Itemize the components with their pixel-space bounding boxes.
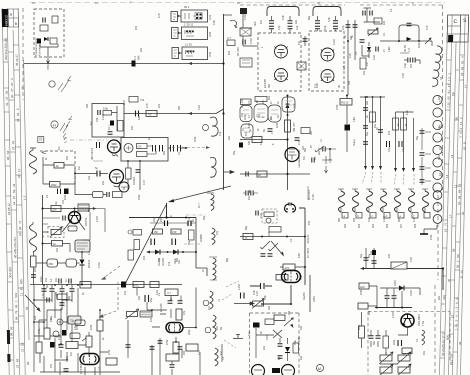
label C9 bbox=[133, 55, 141, 60]
svg-text:22n: 22n bbox=[34, 267, 37, 272]
svg-text:25 · 55 · 91 · 4: 25 · 55 · 91 · 4 bbox=[460, 56, 464, 76]
node pickup hook bbox=[230, 20, 237, 26]
diode D80 bbox=[286, 104, 290, 108]
wire arrow down bbox=[47, 57, 50, 64]
svg-text:0.1µ: 0.1µ bbox=[248, 331, 251, 336]
svg-text:470nF: 470nF bbox=[46, 62, 50, 70]
capacitor C90 bbox=[363, 108, 368, 110]
resistor R112 vertical bbox=[134, 240, 140, 250]
wire bbox=[348, 20, 355, 95]
svg-text:8.2: 8.2 bbox=[58, 146, 61, 150]
resistor R160 bbox=[274, 315, 285, 321]
svg-text:U42: U42 bbox=[208, 31, 212, 37]
wire bbox=[43, 157, 75, 195]
capacitor C64 bars bbox=[97, 171, 100, 177]
svg-text:47p: 47p bbox=[88, 175, 91, 180]
wire bbox=[168, 147, 186, 149]
capacitor C131 block bbox=[372, 250, 376, 255]
label lang schaltersmudge bbox=[298, 146, 305, 168]
resistor R110 bbox=[153, 229, 163, 234]
svg-text:330: 330 bbox=[288, 310, 291, 315]
node box b bbox=[358, 303, 368, 309]
node box2 bbox=[113, 192, 123, 198]
capacitor C141 bbox=[60, 289, 65, 291]
node ticks col bbox=[440, 55, 464, 358]
svg-text:96 · 84: 96 · 84 bbox=[6, 150, 10, 160]
pot P150 bbox=[126, 309, 139, 319]
node circled 1 bbox=[203, 300, 209, 306]
transistor T1 bbox=[69, 212, 81, 224]
svg-text:ECC85: ECC85 bbox=[263, 79, 267, 88]
svg-text:0.47: 0.47 bbox=[298, 140, 301, 145]
svg-text:0.47: 0.47 bbox=[413, 217, 416, 222]
wire arrow bbox=[179, 52, 183, 54]
label bbox=[150, 292, 161, 302]
svg-text:M: M bbox=[318, 367, 321, 371]
svg-text:15n: 15n bbox=[34, 315, 37, 320]
resistor R21 bbox=[227, 40, 235, 46]
svg-text:50µ: 50µ bbox=[360, 253, 363, 258]
svg-text:AM 477: AM 477 bbox=[292, 122, 296, 132]
svg-text:L 8: L 8 bbox=[407, 48, 411, 52]
label 6BM8 bbox=[307, 189, 315, 200]
svg-text:68k: 68k bbox=[137, 55, 141, 60]
wire bbox=[2, 8, 30, 375]
capacitor C113 pair bbox=[172, 239, 176, 246]
label FM wave marks bbox=[60, 116, 72, 140]
capacitor C53 bbox=[360, 40, 365, 42]
svg-text:5.6k: 5.6k bbox=[103, 107, 109, 111]
wire bbox=[240, 14, 252, 28]
resistor R82 bbox=[252, 137, 262, 143]
resistor R171 vertical bbox=[383, 336, 389, 348]
node dashed sub box bbox=[262, 209, 277, 223]
resistor R61 bbox=[118, 121, 124, 132]
node dashed pot frame bbox=[48, 227, 64, 238]
svg-text:3.3k: 3.3k bbox=[213, 20, 216, 25]
svg-text:150: 150 bbox=[183, 350, 186, 355]
resistor R114 vertical bbox=[189, 230, 195, 240]
svg-text:150: 150 bbox=[172, 230, 177, 234]
capacitor C62 bbox=[108, 132, 113, 134]
resistor R73 vertical bbox=[126, 168, 132, 179]
capacitor C156 bbox=[170, 365, 175, 367]
svg-text:5.6k: 5.6k bbox=[264, 295, 267, 300]
label ECC bbox=[79, 363, 83, 374]
node box 4.7 bbox=[165, 289, 178, 296]
resistor R91 bbox=[393, 118, 399, 130]
svg-text:15n: 15n bbox=[423, 350, 426, 355]
capacitor C93 bbox=[378, 130, 383, 132]
svg-text:4.7k: 4.7k bbox=[343, 65, 346, 70]
label cluster texts bbox=[244, 113, 273, 136]
label wave marks bbox=[58, 76, 71, 92]
capacitor C154 bbox=[150, 347, 155, 349]
wire dash-dot line bbox=[70, 139, 107, 141]
node mid connector bbox=[297, 62, 306, 70]
svg-text:47: 47 bbox=[21, 86, 25, 90]
pot P173 bbox=[397, 364, 411, 375]
diode D101 bbox=[44, 37, 48, 41]
wire bbox=[439, 15, 468, 375]
wire bbox=[43, 183, 75, 185]
node speaker coil 2 bbox=[213, 315, 216, 339]
svg-text:560: 560 bbox=[398, 217, 401, 222]
svg-text:22n: 22n bbox=[295, 19, 298, 24]
node coil antenna 2 bbox=[30, 224, 37, 252]
svg-text:25µ: 25µ bbox=[241, 103, 244, 108]
node contact block K1 bbox=[181, 10, 208, 22]
wire bbox=[75, 173, 108, 175]
svg-text:6.3A: 6.3A bbox=[311, 194, 315, 200]
svg-text:AT 240: AT 240 bbox=[236, 47, 240, 56]
svg-text:330: 330 bbox=[366, 100, 369, 105]
svg-text:0.1: 0.1 bbox=[46, 194, 49, 198]
capacitor C158 bbox=[126, 345, 131, 347]
capacitor C66 block bbox=[64, 189, 69, 195]
capacitor C146 bbox=[42, 289, 47, 291]
wire bbox=[81, 265, 83, 285]
svg-text:2.2M: 2.2M bbox=[383, 216, 386, 222]
svg-text:64 · 87 · 56 · 44: 64 · 87 · 56 · 44 bbox=[12, 183, 16, 205]
wire inside bbox=[256, 328, 288, 361]
node junction bbox=[347, 40, 349, 42]
node tube box ECC85 b bbox=[309, 31, 344, 91]
capacitor C123 bbox=[268, 254, 273, 256]
node switch S2a bbox=[172, 28, 179, 39]
svg-text:68p: 68p bbox=[68, 295, 71, 300]
label Ua bbox=[302, 292, 316, 302]
wire dash mid bbox=[186, 214, 206, 216]
svg-text:4.7: 4.7 bbox=[65, 278, 68, 282]
label 240 bbox=[236, 21, 257, 56]
svg-text:25µ: 25µ bbox=[233, 150, 236, 155]
node box right bbox=[186, 344, 198, 351]
wire y97 top bbox=[360, 96, 385, 98]
node module frame bbox=[34, 9, 64, 57]
svg-text:505-: 505- bbox=[446, 334, 450, 340]
svg-text:25µ: 25µ bbox=[368, 310, 371, 315]
resistor R72 bbox=[137, 152, 148, 157]
capacitor C163 bbox=[278, 344, 283, 346]
node envelope outline d bbox=[241, 124, 253, 138]
svg-text:50µ: 50µ bbox=[366, 131, 369, 136]
node inner marks envelopes bbox=[243, 101, 292, 132]
capacitor C147 bbox=[47, 298, 49, 303]
node gray module box bbox=[75, 240, 90, 252]
resistor R100 bbox=[51, 206, 61, 212]
svg-text:15n: 15n bbox=[102, 180, 105, 185]
label AC151 bbox=[84, 217, 88, 226]
tube V12 arc bbox=[282, 365, 295, 375]
svg-text:220p: 220p bbox=[188, 329, 191, 335]
label under coil row bbox=[344, 223, 417, 228]
wire right leg bbox=[196, 218, 207, 277]
svg-text:OA150: OA150 bbox=[161, 257, 165, 266]
capacitor C155 bbox=[178, 347, 183, 349]
capacitor C145 bbox=[64, 369, 69, 371]
wire right dashed border bbox=[435, 5, 443, 375]
node circled H bbox=[51, 121, 58, 128]
svg-text:TR2: TR2 bbox=[266, 335, 269, 340]
wire horizontals bbox=[34, 300, 120, 372]
resistor R140 vertical bbox=[44, 328, 50, 339]
capacitor C60 bbox=[98, 110, 100, 115]
diode D52 bbox=[407, 37, 412, 41]
svg-text:14: 14 bbox=[445, 174, 449, 178]
wire bottom stubs bbox=[40, 353, 95, 375]
capacitor C95 pair bbox=[399, 141, 402, 147]
wire heater down bbox=[299, 208, 305, 285]
svg-text:2.2M: 2.2M bbox=[98, 262, 101, 268]
capacitor C152 bbox=[168, 301, 173, 303]
node ticks col bbox=[3, 40, 25, 360]
coil L9 lower part bbox=[433, 95, 442, 192]
node tube box ECC85 bbox=[258, 33, 301, 91]
diode D51 bbox=[367, 47, 371, 51]
resistor R111 bbox=[171, 229, 181, 234]
node junctions bbox=[287, 114, 289, 116]
wire arrowhead bbox=[290, 324, 294, 328]
label 4.7n bbox=[160, 215, 173, 222]
resistor R81 vertical bbox=[285, 120, 291, 132]
node dashed vertical right bbox=[117, 282, 119, 310]
capacitor C112 pair bbox=[151, 239, 155, 246]
svg-text:100k: 100k bbox=[276, 122, 279, 128]
svg-text:4.7k: 4.7k bbox=[158, 13, 161, 18]
wire dash-dot bbox=[184, 243, 201, 245]
node box 220 bbox=[359, 283, 369, 289]
svg-text:47k: 47k bbox=[218, 131, 222, 136]
wire arrow bbox=[360, 267, 364, 270]
node left mini boxes bbox=[133, 230, 142, 236]
svg-text:CA: CA bbox=[138, 145, 142, 149]
capacitor C35 bbox=[243, 40, 245, 45]
svg-text:ECL86: ECL86 bbox=[159, 303, 163, 312]
svg-text:10.7: 10.7 bbox=[198, 203, 201, 208]
svg-text:22n: 22n bbox=[438, 295, 441, 300]
label Frequenzgang bbox=[34, 38, 50, 70]
svg-text:68p: 68p bbox=[308, 15, 311, 20]
node dots bbox=[365, 96, 367, 98]
capacitor C83 bbox=[295, 138, 300, 140]
resistor R122 bbox=[283, 264, 295, 270]
svg-text:25µ: 25µ bbox=[203, 215, 206, 220]
capacitor C94 pair bbox=[387, 141, 390, 147]
svg-text:330: 330 bbox=[310, 130, 313, 135]
diode D110 bbox=[155, 250, 160, 255]
capacitor C96 column bbox=[420, 131, 425, 133]
pot P1 bbox=[50, 227, 62, 237]
wire arrow right bbox=[93, 207, 96, 210]
svg-text:Oh: Oh bbox=[451, 92, 455, 96]
capacitor C110 bbox=[165, 221, 168, 227]
svg-text:2.2M: 2.2M bbox=[96, 216, 99, 222]
wire verticals bbox=[366, 97, 414, 170]
pot P170 bbox=[379, 352, 393, 364]
svg-text:160: 160 bbox=[160, 217, 163, 222]
svg-text:30k: 30k bbox=[253, 21, 257, 26]
capacitor C130 bbox=[364, 258, 369, 260]
svg-text:3.3k: 3.3k bbox=[282, 15, 285, 20]
wire bbox=[362, 42, 369, 58]
node dashed psu box bbox=[368, 312, 450, 375]
svg-text:15 · 77: 15 · 77 bbox=[444, 222, 448, 232]
pot P51 bbox=[368, 28, 378, 36]
wire vert right bbox=[309, 275, 311, 312]
capacitor C85 bbox=[312, 158, 314, 163]
node mid box bbox=[269, 227, 281, 233]
svg-text:470: 470 bbox=[285, 266, 290, 270]
svg-text:C100: C100 bbox=[410, 289, 413, 296]
capacitor C170 bbox=[385, 296, 390, 298]
node TR2 cross bbox=[273, 330, 282, 338]
wire between boxes bbox=[304, 36, 306, 46]
svg-text:Ua250: Ua250 bbox=[302, 292, 306, 300]
capacitor C55 bbox=[407, 23, 412, 25]
svg-text:47p: 47p bbox=[216, 230, 219, 235]
label UKW column bbox=[300, 234, 310, 280]
wire stubs caps bbox=[272, 16, 336, 33]
svg-text:31 · 47 · 93: 31 · 47 · 93 bbox=[5, 90, 9, 106]
resistor R101 bbox=[40, 25, 48, 31]
capacitor C100 bbox=[31, 275, 36, 277]
svg-text:68p: 68p bbox=[226, 257, 229, 262]
node switch cluster right of tube bbox=[315, 146, 332, 164]
label ECL86 bbox=[159, 303, 163, 312]
wire main vertical bus x223 bbox=[223, 14, 225, 190]
resistor R151 vertical bbox=[176, 309, 182, 320]
tick C bbox=[325, 166, 328, 173]
svg-text:330: 330 bbox=[350, 35, 353, 40]
resistor R101b bbox=[52, 241, 63, 247]
svg-text:64 95 12: 64 95 12 bbox=[7, 203, 11, 215]
resistor R142 vertical bbox=[86, 336, 92, 347]
node round box 70 bbox=[70, 333, 80, 339]
resistor R70 bbox=[146, 111, 157, 117]
svg-text:17: 17 bbox=[449, 214, 453, 218]
svg-text:14: 14 bbox=[450, 154, 454, 158]
wire IF line y113 bbox=[124, 109, 224, 114]
svg-text:6.8n: 6.8n bbox=[298, 253, 301, 258]
svg-text:54 · 96 · 71: 54 · 96 · 71 bbox=[18, 220, 22, 236]
node IF coil 3 bbox=[213, 258, 216, 280]
svg-text:4.7k: 4.7k bbox=[146, 103, 149, 108]
svg-text:10n: 10n bbox=[45, 277, 48, 282]
svg-text:15n: 15n bbox=[56, 247, 59, 252]
svg-text:NTC: NTC bbox=[134, 283, 140, 287]
capacitor C102 bbox=[37, 39, 41, 44]
capacitor C173 bbox=[376, 336, 381, 338]
node small round box ml bbox=[68, 226, 77, 231]
label supply bbox=[366, 115, 408, 152]
wire dashed slants bbox=[362, 172, 414, 185]
resistor R102 bbox=[52, 16, 58, 23]
capacitor C67 bbox=[107, 192, 109, 197]
svg-text:403: 403 bbox=[358, 223, 361, 228]
svg-text:ZF: ZF bbox=[202, 268, 205, 272]
svg-text:C4: C4 bbox=[439, 76, 443, 80]
node osc coil pair bbox=[203, 125, 209, 131]
capacitor C161 pair bbox=[241, 293, 245, 299]
resistor R80 bbox=[255, 97, 267, 102]
resistor R103 bbox=[50, 38, 57, 44]
diode D1 down bbox=[80, 260, 85, 266]
svg-text:406: 406 bbox=[386, 223, 389, 228]
capacitor C151 pair bbox=[145, 295, 149, 302]
svg-text:BA114: BA114 bbox=[87, 259, 91, 268]
wire bbox=[404, 60, 420, 64]
label coil letters bbox=[344, 214, 415, 218]
node IF coil 1 bbox=[211, 194, 214, 211]
svg-text:470k: 470k bbox=[360, 289, 363, 295]
wire AM bus y63 bbox=[24, 63, 224, 65]
svg-text:0.1: 0.1 bbox=[355, 51, 358, 55]
wire tube out bbox=[152, 288, 196, 375]
resistor R51 bbox=[360, 58, 366, 69]
capacitor C80 bbox=[239, 143, 243, 148]
wire det bbox=[380, 41, 432, 46]
node contact block interiors bbox=[186, 14, 202, 53]
svg-text:LS: LS bbox=[222, 357, 225, 360]
label TS3 bbox=[417, 317, 425, 326]
capacitor C52 bbox=[370, 11, 372, 16]
node box k bbox=[66, 342, 78, 349]
svg-text:68p: 68p bbox=[245, 225, 248, 230]
capacitor C162 block bbox=[253, 323, 260, 328]
capacitor C65 bars bbox=[58, 189, 61, 195]
resistor R113 vertical bbox=[128, 250, 134, 260]
wire y307 bbox=[375, 307, 412, 309]
svg-text:8.2: 8.2 bbox=[278, 356, 281, 360]
wire diagonal long bbox=[124, 205, 166, 286]
node envelope outline e bbox=[268, 105, 281, 122]
svg-text:330: 330 bbox=[268, 305, 271, 310]
capacitor C150 block bbox=[121, 282, 126, 288]
svg-text:0.22: 0.22 bbox=[256, 291, 259, 296]
node lamp bbox=[266, 218, 271, 223]
svg-text:12p: 12p bbox=[295, 25, 299, 30]
svg-text:2.2k: 2.2k bbox=[348, 52, 352, 58]
wire center vertical bbox=[287, 95, 289, 190]
svg-text:480 Ω/4.8: 480 Ω/4.8 bbox=[90, 147, 94, 160]
node dashed tuner box bbox=[40, 151, 75, 185]
svg-text:8.2: 8.2 bbox=[90, 121, 93, 125]
wire y236 bbox=[240, 236, 305, 238]
svg-text:15n: 15n bbox=[158, 103, 161, 108]
svg-text:4.7: 4.7 bbox=[227, 36, 231, 40]
svg-text:100k: 100k bbox=[244, 114, 247, 120]
node circled contact b bbox=[53, 331, 59, 337]
svg-text:22n: 22n bbox=[318, 150, 321, 155]
node box bbox=[150, 282, 159, 288]
wire arrow right from bus bbox=[224, 171, 235, 174]
label RO/RA bbox=[132, 177, 146, 185]
svg-text:22n: 22n bbox=[228, 135, 231, 140]
node cap T symbol left bbox=[233, 335, 243, 339]
wire stubs bbox=[52, 285, 72, 311]
label OA150 pair bbox=[157, 257, 171, 266]
label bl values bbox=[38, 276, 77, 368]
label coils bbox=[218, 299, 225, 360]
node header black box bbox=[2, 9, 9, 27]
pot P171 bbox=[397, 352, 411, 364]
resistor R150 bbox=[133, 282, 144, 288]
svg-text:1M: 1M bbox=[220, 352, 223, 355]
svg-text:0.22: 0.22 bbox=[410, 257, 413, 262]
tube V2a bbox=[321, 48, 334, 61]
capacitor C153 bbox=[178, 301, 183, 303]
